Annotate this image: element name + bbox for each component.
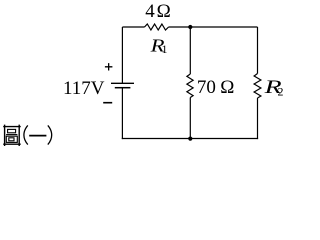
battery V1 plate short <box>115 87 131 89</box>
wire left lower <box>121 88 123 139</box>
caption glyph tu (figure) outer box <box>3 125 21 146</box>
wire top-left segment <box>122 26 144 28</box>
svg-text:70: 70 <box>197 77 216 98</box>
caption glyph one <box>29 135 46 137</box>
svg-text:2: 2 <box>278 85 284 99</box>
caption close paren <box>48 125 52 144</box>
battery V1 plus sign <box>105 63 113 70</box>
resistor 70 ohm <box>187 74 193 98</box>
caption glyph tu middle bar <box>6 134 17 136</box>
svg-text:Ω: Ω <box>220 77 234 98</box>
caption glyph tu lower inner box <box>9 138 14 141</box>
resistor R1 <box>145 24 169 30</box>
svg-text:Ω: Ω <box>157 1 171 22</box>
node junction top <box>188 25 192 29</box>
battery V1 minus sign <box>103 102 112 104</box>
caption glyph tu inner mouth box <box>8 129 16 132</box>
wire middle lower <box>189 98 191 139</box>
node junction bottom <box>188 137 192 141</box>
svg-text:117V: 117V <box>63 78 105 99</box>
wire right lower <box>257 98 259 139</box>
svg-text:4: 4 <box>145 1 155 22</box>
resistor R2 <box>254 74 261 99</box>
battery V1 plate long <box>111 82 134 84</box>
caption open paren <box>24 125 28 144</box>
svg-text:1: 1 <box>162 42 168 56</box>
wire right upper <box>257 27 259 74</box>
wire top-right segment <box>169 26 258 28</box>
wire middle upper <box>189 27 191 74</box>
wire left upper <box>121 27 123 83</box>
wire bottom <box>122 138 258 140</box>
caption glyph tu lower box <box>6 136 17 142</box>
